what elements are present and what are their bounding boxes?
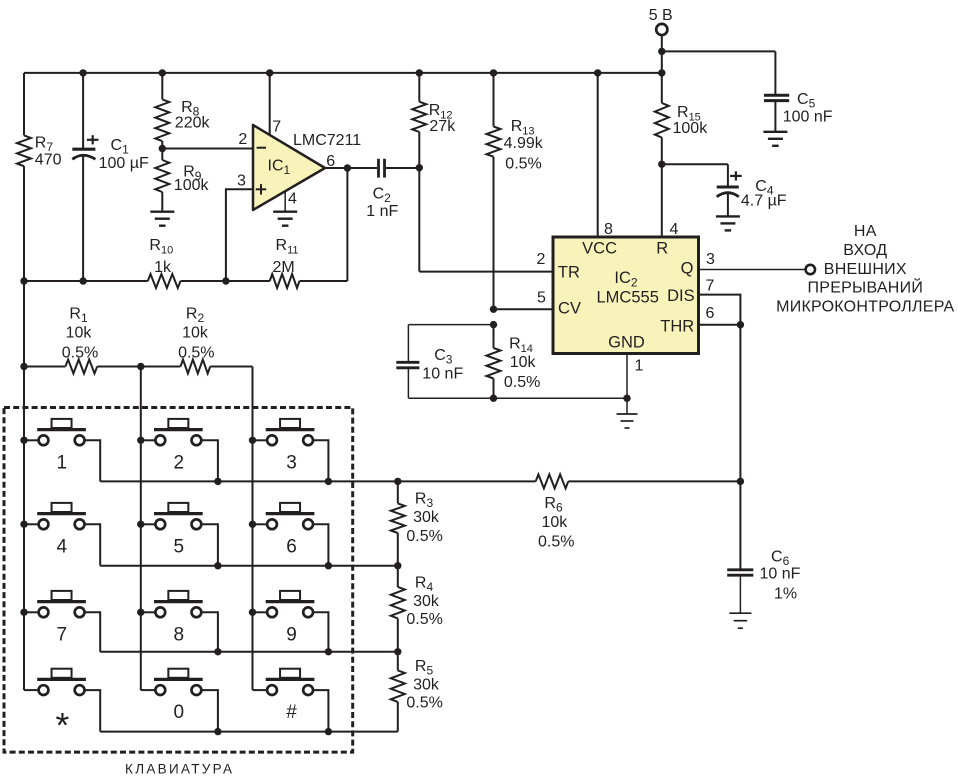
wire C5 branch bbox=[662, 51, 776, 95]
pin 3 label IC1 bbox=[237, 173, 246, 190]
resistor R5 bbox=[391, 652, 443, 732]
svg-text:R5: R5 bbox=[415, 658, 434, 678]
svg-text:0.5%: 0.5% bbox=[62, 345, 98, 362]
svg-text:4: 4 bbox=[57, 536, 68, 557]
node junction row1/R3 bbox=[394, 478, 401, 485]
svg-text:6: 6 bbox=[286, 536, 297, 557]
node junction DIS/THR bbox=[737, 321, 744, 328]
ground R9 bbox=[150, 212, 174, 226]
ground IC1 pin 4 bbox=[273, 212, 297, 226]
svg-text:10 nF: 10 nF bbox=[760, 566, 801, 583]
resistor R6 bbox=[536, 474, 575, 550]
resistor R11 bbox=[270, 237, 300, 288]
svg-text:4: 4 bbox=[670, 221, 679, 238]
svg-text:6: 6 bbox=[706, 305, 715, 322]
wire left column upper bbox=[23, 281, 25, 690]
wire TR line bbox=[419, 168, 553, 272]
label key 5 bbox=[174, 536, 185, 557]
resistor R4 bbox=[391, 566, 443, 652]
node junction drop key # bbox=[325, 728, 332, 735]
wire row line 4 bbox=[100, 731, 398, 733]
push-button key 1 bbox=[24, 419, 100, 482]
resistor R13 bbox=[487, 73, 544, 309]
svg-text:LMC555: LMC555 bbox=[597, 289, 659, 307]
svg-text:100 µF: 100 µF bbox=[99, 155, 149, 172]
push-button key # bbox=[253, 669, 329, 732]
wire DIS-THR column down bbox=[739, 325, 741, 482]
svg-text:0.5%: 0.5% bbox=[505, 156, 541, 173]
capacitor C2 bbox=[366, 159, 419, 220]
resistor R10 bbox=[148, 237, 181, 288]
svg-text:100k: 100k bbox=[673, 120, 709, 137]
svg-text:1: 1 bbox=[635, 357, 644, 374]
wire CV line bbox=[494, 308, 554, 310]
op-amp IC1 plus sign bbox=[256, 184, 266, 194]
svg-text:30k: 30k bbox=[413, 509, 440, 526]
svg-text:5 В: 5 В bbox=[649, 7, 673, 24]
svg-text:3: 3 bbox=[706, 251, 715, 268]
node junction R8/R9 inverting input bbox=[159, 145, 166, 152]
pin 6 label IC2 bbox=[706, 305, 715, 322]
node junction pin1 ground bbox=[623, 395, 630, 402]
capacitor C6 bbox=[727, 481, 800, 613]
wire THR pin 6 bbox=[699, 324, 741, 326]
IC2 label LMC555 bbox=[597, 289, 659, 307]
svg-text:R2: R2 bbox=[186, 306, 205, 326]
svg-text:10k: 10k bbox=[542, 514, 569, 531]
svg-text:5: 5 bbox=[537, 290, 546, 307]
node junction R13/CV bbox=[490, 306, 497, 313]
ground C4 bbox=[716, 216, 740, 230]
svg-text:0.5%: 0.5% bbox=[406, 695, 442, 712]
node junction drop key 0 bbox=[214, 728, 221, 735]
svg-text:ВХОД: ВХОД bbox=[843, 242, 887, 259]
svg-text:3: 3 bbox=[286, 452, 297, 473]
svg-text:0: 0 bbox=[174, 702, 185, 723]
resistor R8 bbox=[155, 73, 210, 149]
node junction row2/R3R4 bbox=[394, 562, 401, 569]
node junction column 1 row 2 bbox=[20, 521, 27, 528]
svg-text:0.5%: 0.5% bbox=[178, 345, 214, 362]
push-button key * bbox=[24, 669, 100, 732]
push-button key 6 bbox=[253, 503, 329, 566]
resistor R1 bbox=[62, 306, 98, 374]
svg-text:КЛАВИАТУРА: КЛАВИАТУРА bbox=[125, 761, 234, 776]
wire column 2 bbox=[140, 367, 142, 691]
node junction row3/R4R5 bbox=[394, 648, 401, 655]
node junction left/R1 bbox=[20, 363, 27, 370]
push-button key 3 bbox=[253, 419, 329, 482]
wire row line 2 bbox=[100, 565, 398, 567]
node junction C2/R12 bbox=[416, 164, 423, 171]
svg-text:LMC7211: LMC7211 bbox=[293, 132, 361, 149]
label key 6 bbox=[286, 536, 297, 557]
svg-text:220k: 220k bbox=[175, 115, 211, 132]
svg-text:R10: R10 bbox=[149, 237, 173, 257]
wire C3 top line bbox=[408, 324, 493, 326]
wire R1-R2 line bbox=[24, 366, 253, 368]
svg-text:0.5%: 0.5% bbox=[538, 534, 574, 551]
capacitor C1 polarized bbox=[72, 73, 149, 281]
svg-text:R6: R6 bbox=[544, 495, 563, 515]
node junction IC1 output bbox=[344, 164, 351, 171]
svg-text:1 nF: 1 nF bbox=[366, 203, 398, 220]
pin 3 label IC2 bbox=[706, 251, 715, 268]
svg-text:1k: 1k bbox=[154, 259, 172, 276]
node junction feedback C1 bbox=[79, 277, 86, 284]
label output text bbox=[776, 223, 954, 316]
node junction top bus at C1 bbox=[79, 69, 86, 76]
node junction drop key 8 bbox=[214, 648, 221, 655]
label key * bbox=[55, 706, 69, 746]
wire IC1 pin 3 input bbox=[226, 189, 253, 281]
wire C4 branch bbox=[662, 164, 728, 187]
label key # bbox=[286, 702, 297, 723]
label КЛАВИАТУРА bbox=[125, 761, 234, 776]
svg-text:2M: 2M bbox=[272, 259, 294, 276]
node junction top bus at VCC column bbox=[594, 69, 601, 76]
wire IC1 pin 4 bbox=[284, 191, 286, 212]
svg-text:GND: GND bbox=[608, 334, 645, 352]
svg-text:VCC: VCC bbox=[582, 239, 617, 257]
svg-text:5: 5 bbox=[174, 536, 185, 557]
push-button key 8 bbox=[141, 591, 218, 652]
svg-text:R1: R1 bbox=[69, 306, 88, 326]
node junction feedback pin3 bbox=[222, 277, 229, 284]
node junction column 3 row 3 bbox=[249, 609, 256, 616]
svg-text:10k: 10k bbox=[182, 325, 209, 342]
svg-text:1%: 1% bbox=[774, 585, 797, 602]
resistor R14 bbox=[487, 325, 541, 399]
svg-text:30k: 30k bbox=[413, 593, 440, 610]
pin 5 label IC2 bbox=[537, 290, 546, 307]
svg-text:R3: R3 bbox=[415, 490, 434, 510]
svg-text:0.5%: 0.5% bbox=[504, 374, 540, 391]
svg-text:#: # bbox=[286, 702, 297, 723]
svg-text:0.5%: 0.5% bbox=[406, 528, 442, 545]
svg-text:0.5%: 0.5% bbox=[406, 611, 442, 628]
pin 7 label IC2 bbox=[706, 277, 715, 294]
wire top supply bus bbox=[24, 72, 662, 74]
node junction R1/R2 column2 bbox=[137, 363, 144, 370]
IC2 label Q bbox=[681, 260, 694, 278]
output terminal circle bbox=[806, 265, 815, 274]
label key 9 bbox=[286, 624, 297, 645]
node junction drop key 6 bbox=[325, 562, 332, 569]
power terminal 5 V bbox=[649, 7, 673, 73]
node junction column 3 row 1 bbox=[249, 437, 256, 444]
op-amp IC1 minus sign bbox=[257, 147, 266, 149]
node junction drop key 9 bbox=[325, 648, 332, 655]
svg-text:27k: 27k bbox=[429, 118, 456, 135]
node junction column 1 row 3 bbox=[20, 609, 27, 616]
node junction R14 bottom bbox=[490, 395, 497, 402]
svg-text:3: 3 bbox=[237, 173, 246, 190]
svg-text:МИКРОКОНТРОЛЛЕРА: МИКРОКОНТРОЛЛЕРА bbox=[776, 299, 954, 316]
node junction R15/C4 bbox=[658, 161, 665, 168]
svg-text:8: 8 bbox=[174, 624, 185, 645]
wire Q output bbox=[699, 269, 806, 271]
node junction column/R6 line bbox=[737, 478, 744, 485]
resistor R7 bbox=[17, 73, 62, 281]
svg-text:100k: 100k bbox=[174, 177, 210, 194]
node junction top bus at R13 bbox=[490, 69, 497, 76]
IC2 label THR bbox=[660, 317, 694, 335]
IC2 label R bbox=[656, 239, 668, 257]
wire IC2 pin 1 bbox=[626, 354, 628, 399]
node junction top bus at R12 bbox=[416, 69, 423, 76]
svg-text:TR: TR bbox=[558, 263, 580, 281]
node junction column 1 row 1 bbox=[20, 437, 27, 444]
svg-text:НА: НА bbox=[854, 223, 877, 240]
label key 4 bbox=[57, 536, 68, 557]
label key 1 bbox=[57, 452, 68, 473]
svg-text:4: 4 bbox=[288, 190, 297, 207]
pin 4 label IC2 bbox=[670, 221, 679, 238]
svg-text:2: 2 bbox=[238, 131, 247, 148]
push-button key 0 bbox=[141, 669, 218, 732]
svg-text:4.99k: 4.99k bbox=[504, 135, 544, 152]
label key 7 bbox=[57, 624, 68, 645]
wire IC1 pin 7 supply bbox=[269, 73, 271, 135]
svg-text:ПРЕРЫВАНИЙ: ПРЕРЫВАНИЙ bbox=[808, 278, 924, 297]
svg-text:10k: 10k bbox=[510, 354, 537, 371]
svg-text:2: 2 bbox=[537, 251, 546, 268]
wire DIS pin 7 bbox=[699, 295, 741, 325]
svg-text:R: R bbox=[656, 239, 668, 257]
pin 2 label IC2 bbox=[537, 251, 546, 268]
svg-text:C3: C3 bbox=[434, 347, 453, 367]
label key 2 bbox=[174, 452, 185, 473]
svg-text:THR: THR bbox=[660, 317, 694, 335]
svg-text:10k: 10k bbox=[66, 325, 93, 342]
node junction column 2 row 2 bbox=[137, 521, 144, 528]
resistor R2 bbox=[178, 306, 214, 374]
IC2 label GND bbox=[608, 334, 645, 352]
keypad dashed boundary bbox=[4, 408, 353, 753]
node junction column 2 row 3 bbox=[137, 609, 144, 616]
node junction feedback left bbox=[20, 277, 27, 284]
resistor R9 bbox=[155, 149, 209, 212]
IC2 label CV bbox=[558, 300, 581, 318]
push-button key 9 bbox=[253, 591, 329, 652]
push-button key 5 bbox=[141, 503, 218, 566]
resistor R15 bbox=[655, 73, 708, 164]
svg-text:470: 470 bbox=[35, 152, 62, 169]
svg-text:10 nF: 10 nF bbox=[422, 365, 463, 382]
svg-text:Q: Q bbox=[681, 260, 694, 278]
svg-text:30k: 30k bbox=[413, 677, 440, 694]
svg-text:C1: C1 bbox=[111, 137, 130, 157]
node junction top bus at R15 bbox=[658, 69, 665, 76]
svg-text:4.7 µF: 4.7 µF bbox=[741, 193, 787, 210]
wire row line 3 bbox=[100, 651, 398, 653]
label key 8 bbox=[174, 624, 185, 645]
IC U2 LMC555 body bbox=[553, 237, 699, 354]
svg-text:R4: R4 bbox=[415, 575, 434, 595]
capacitor C3 bbox=[396, 325, 463, 399]
wire IC1 output pin 6 bbox=[325, 167, 377, 169]
label key 0 bbox=[174, 702, 185, 723]
svg-text:*: * bbox=[55, 706, 69, 746]
svg-text:7: 7 bbox=[57, 624, 68, 645]
wire IC1 pin 2 input bbox=[162, 148, 253, 150]
node junction column 3 row 2 bbox=[249, 521, 256, 528]
pin 4 label IC1 bbox=[288, 190, 297, 207]
wire feedback line bbox=[24, 168, 347, 281]
svg-text:100 nF: 100 nF bbox=[783, 108, 833, 125]
node junction column 2 row 1 bbox=[137, 437, 144, 444]
pin 7 label IC1 bbox=[272, 118, 281, 135]
IC2 label VCC bbox=[582, 239, 617, 257]
svg-text:7: 7 bbox=[706, 277, 715, 294]
pin 1 label IC2 bbox=[635, 357, 644, 374]
wire column 3 bbox=[252, 367, 254, 691]
svg-text:7: 7 bbox=[272, 118, 281, 135]
node junction drop key 2 bbox=[214, 478, 221, 485]
capacitor C4 polarized bbox=[717, 171, 787, 216]
ground IC2 pin 1 bbox=[617, 398, 638, 428]
wire ground line C3 to pin1 bbox=[408, 397, 627, 399]
node junction 5V at C5 branch bbox=[658, 48, 665, 55]
svg-text:CV: CV bbox=[558, 300, 581, 318]
IC2 label TR bbox=[558, 263, 580, 281]
svg-text:8: 8 bbox=[604, 221, 613, 238]
svg-text:2: 2 bbox=[174, 452, 185, 473]
push-button key 7 bbox=[24, 591, 100, 652]
wire row line 1 bbox=[100, 480, 740, 482]
node junction top bus at R8 bbox=[159, 69, 166, 76]
IC2 label IC2 bbox=[614, 269, 638, 290]
node junction drop key 5 bbox=[214, 562, 221, 569]
ground C5 bbox=[763, 132, 787, 146]
resistor R3 bbox=[391, 481, 443, 565]
node junction C3 top/R14 bbox=[490, 321, 497, 328]
label key 3 bbox=[286, 452, 297, 473]
node junction drop key 3 bbox=[325, 478, 332, 485]
op-amp IC1 LMC7211 body bbox=[253, 125, 361, 210]
pin 2 label IC1 bbox=[238, 131, 247, 148]
pin 8 label IC2 bbox=[604, 221, 613, 238]
wire VCC pin 8 column bbox=[597, 73, 599, 237]
svg-text:1: 1 bbox=[57, 452, 68, 473]
svg-text:R11: R11 bbox=[276, 237, 299, 257]
IC2 label DIS bbox=[667, 287, 695, 305]
capacitor C5 bbox=[764, 91, 833, 132]
pin 6 label IC1 bbox=[326, 153, 335, 170]
svg-text:ВНЕШНИХ: ВНЕШНИХ bbox=[824, 261, 907, 278]
svg-text:R14: R14 bbox=[509, 336, 533, 356]
svg-text:DIS: DIS bbox=[667, 287, 695, 305]
wire R pin 4 column bbox=[661, 164, 663, 237]
push-button key 4 bbox=[24, 503, 100, 566]
node junction top bus at IC1 pin 7 bbox=[266, 69, 273, 76]
push-button key 2 bbox=[141, 419, 218, 482]
ground C6 bbox=[729, 613, 751, 628]
svg-text:9: 9 bbox=[286, 624, 297, 645]
resistor R12 bbox=[412, 73, 456, 168]
